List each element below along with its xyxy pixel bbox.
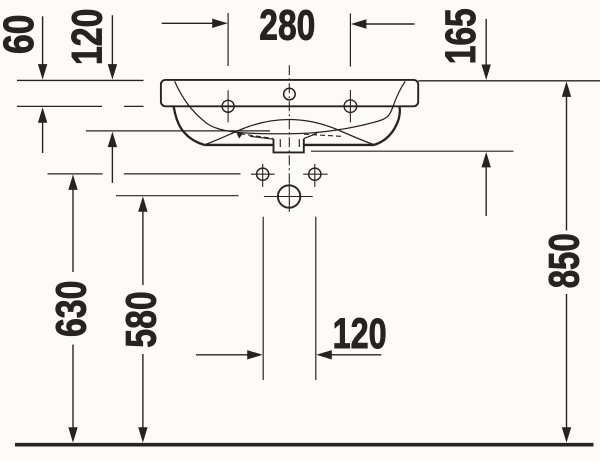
drain stub inner wall right — [298, 139, 300, 147]
svg-text:580: 580 — [119, 291, 166, 347]
dimension 580 line upper arrow — [138, 196, 147, 212]
basin bottom right segment — [304, 144, 374, 146]
drain hole vertical crosshair — [288, 183, 290, 212]
svg-text:280: 280 — [259, 2, 315, 49]
dimension 630 line upper arrow — [68, 174, 77, 190]
drain funnel right line — [304, 133, 317, 138]
dimension 120 bottom left extension line — [262, 217, 264, 380]
drain stub inner wall left — [279, 139, 281, 147]
small flow arrow at left crossing — [236, 132, 243, 139]
basin body left wall — [174, 107, 205, 145]
basin bottom left segment — [204, 144, 273, 146]
fixing hole right vertical crosshair — [314, 164, 316, 187]
svg-text:850: 850 — [541, 233, 588, 288]
top single tap hole — [284, 88, 296, 100]
inner bowl front edge curve — [205, 120, 375, 145]
dimension 120 bottom right arrow — [332, 354, 382, 356]
svg-text:630: 630 — [48, 281, 95, 337]
basin body right wall — [374, 106, 400, 145]
dimension 120 bottom left arrow — [196, 354, 251, 356]
svg-text:120: 120 — [65, 9, 112, 65]
dimension 165 upper shaft and arrow — [485, 19, 487, 67]
dimension 280 right arrow — [365, 23, 415, 25]
tap hole left — [222, 100, 234, 112]
floor line — [15, 443, 594, 447]
svg-text:120: 120 — [333, 311, 387, 358]
dimension 60 upper shaft and arrow — [42, 16, 44, 66]
wire rim-bottom extension line left (segment 1) — [17, 105, 102, 107]
wire fixing-hole level extension line (segment 2) — [124, 173, 241, 175]
dimension 120 lower arrow and shaft — [108, 132, 117, 148]
fixing hole right — [309, 168, 321, 180]
wire top reference line left of basin — [17, 79, 144, 81]
wire rim-bottom extension line left (segment 2) — [124, 105, 144, 107]
dimension 580 line lower part with arrow — [142, 354, 144, 430]
drain hole circle — [278, 185, 300, 207]
hidden drain channel dashed line right — [304, 134, 341, 136]
fixing hole right horizontal crosshair — [303, 173, 327, 175]
centerline through basin — [288, 65, 290, 183]
svg-text:165: 165 — [438, 8, 485, 64]
wire 165 lower extension line — [311, 150, 514, 152]
fixing hole left — [257, 168, 269, 180]
inner bowl back edge curve — [175, 81, 406, 134]
dimension 120 upper shaft and arrow — [111, 15, 113, 66]
basin rim band — [161, 80, 418, 106]
wire drain level extension line — [116, 195, 239, 197]
wire top reference line right of basin — [418, 80, 600, 82]
tap hole right vertical crosshair — [349, 90, 351, 122]
dimension 850 line lower part with arrow — [566, 294, 568, 430]
wire fixing-hole level extension line (segment 1) — [48, 173, 103, 175]
dimension 165 lower arrow and shaft — [482, 152, 491, 168]
dimension 630 line lower part with arrow — [72, 345, 74, 430]
dimension 850 line upper part with arrow — [562, 81, 571, 97]
drain funnel left line — [250, 136, 274, 139]
dimension 280 right extension line — [349, 14, 351, 67]
dimension 120 bottom right extension line — [315, 217, 317, 380]
tap hole left vertical crosshair — [227, 90, 229, 122]
drain hole horizontal crosshair — [264, 196, 313, 198]
dimension 280 left extension line — [227, 13, 229, 66]
wire 120-level extension line — [86, 130, 270, 132]
dimension 280 left arrow — [162, 22, 215, 24]
drain stub outline — [274, 139, 304, 153]
dimension 60 lower arrow and shaft — [38, 107, 47, 123]
fixing hole left horizontal crosshair — [251, 173, 275, 175]
svg-text:60: 60 — [0, 14, 43, 54]
tap hole right — [344, 100, 357, 113]
hidden drain channel dashed line left — [240, 134, 273, 139]
fixing hole left vertical crosshair — [262, 164, 264, 187]
